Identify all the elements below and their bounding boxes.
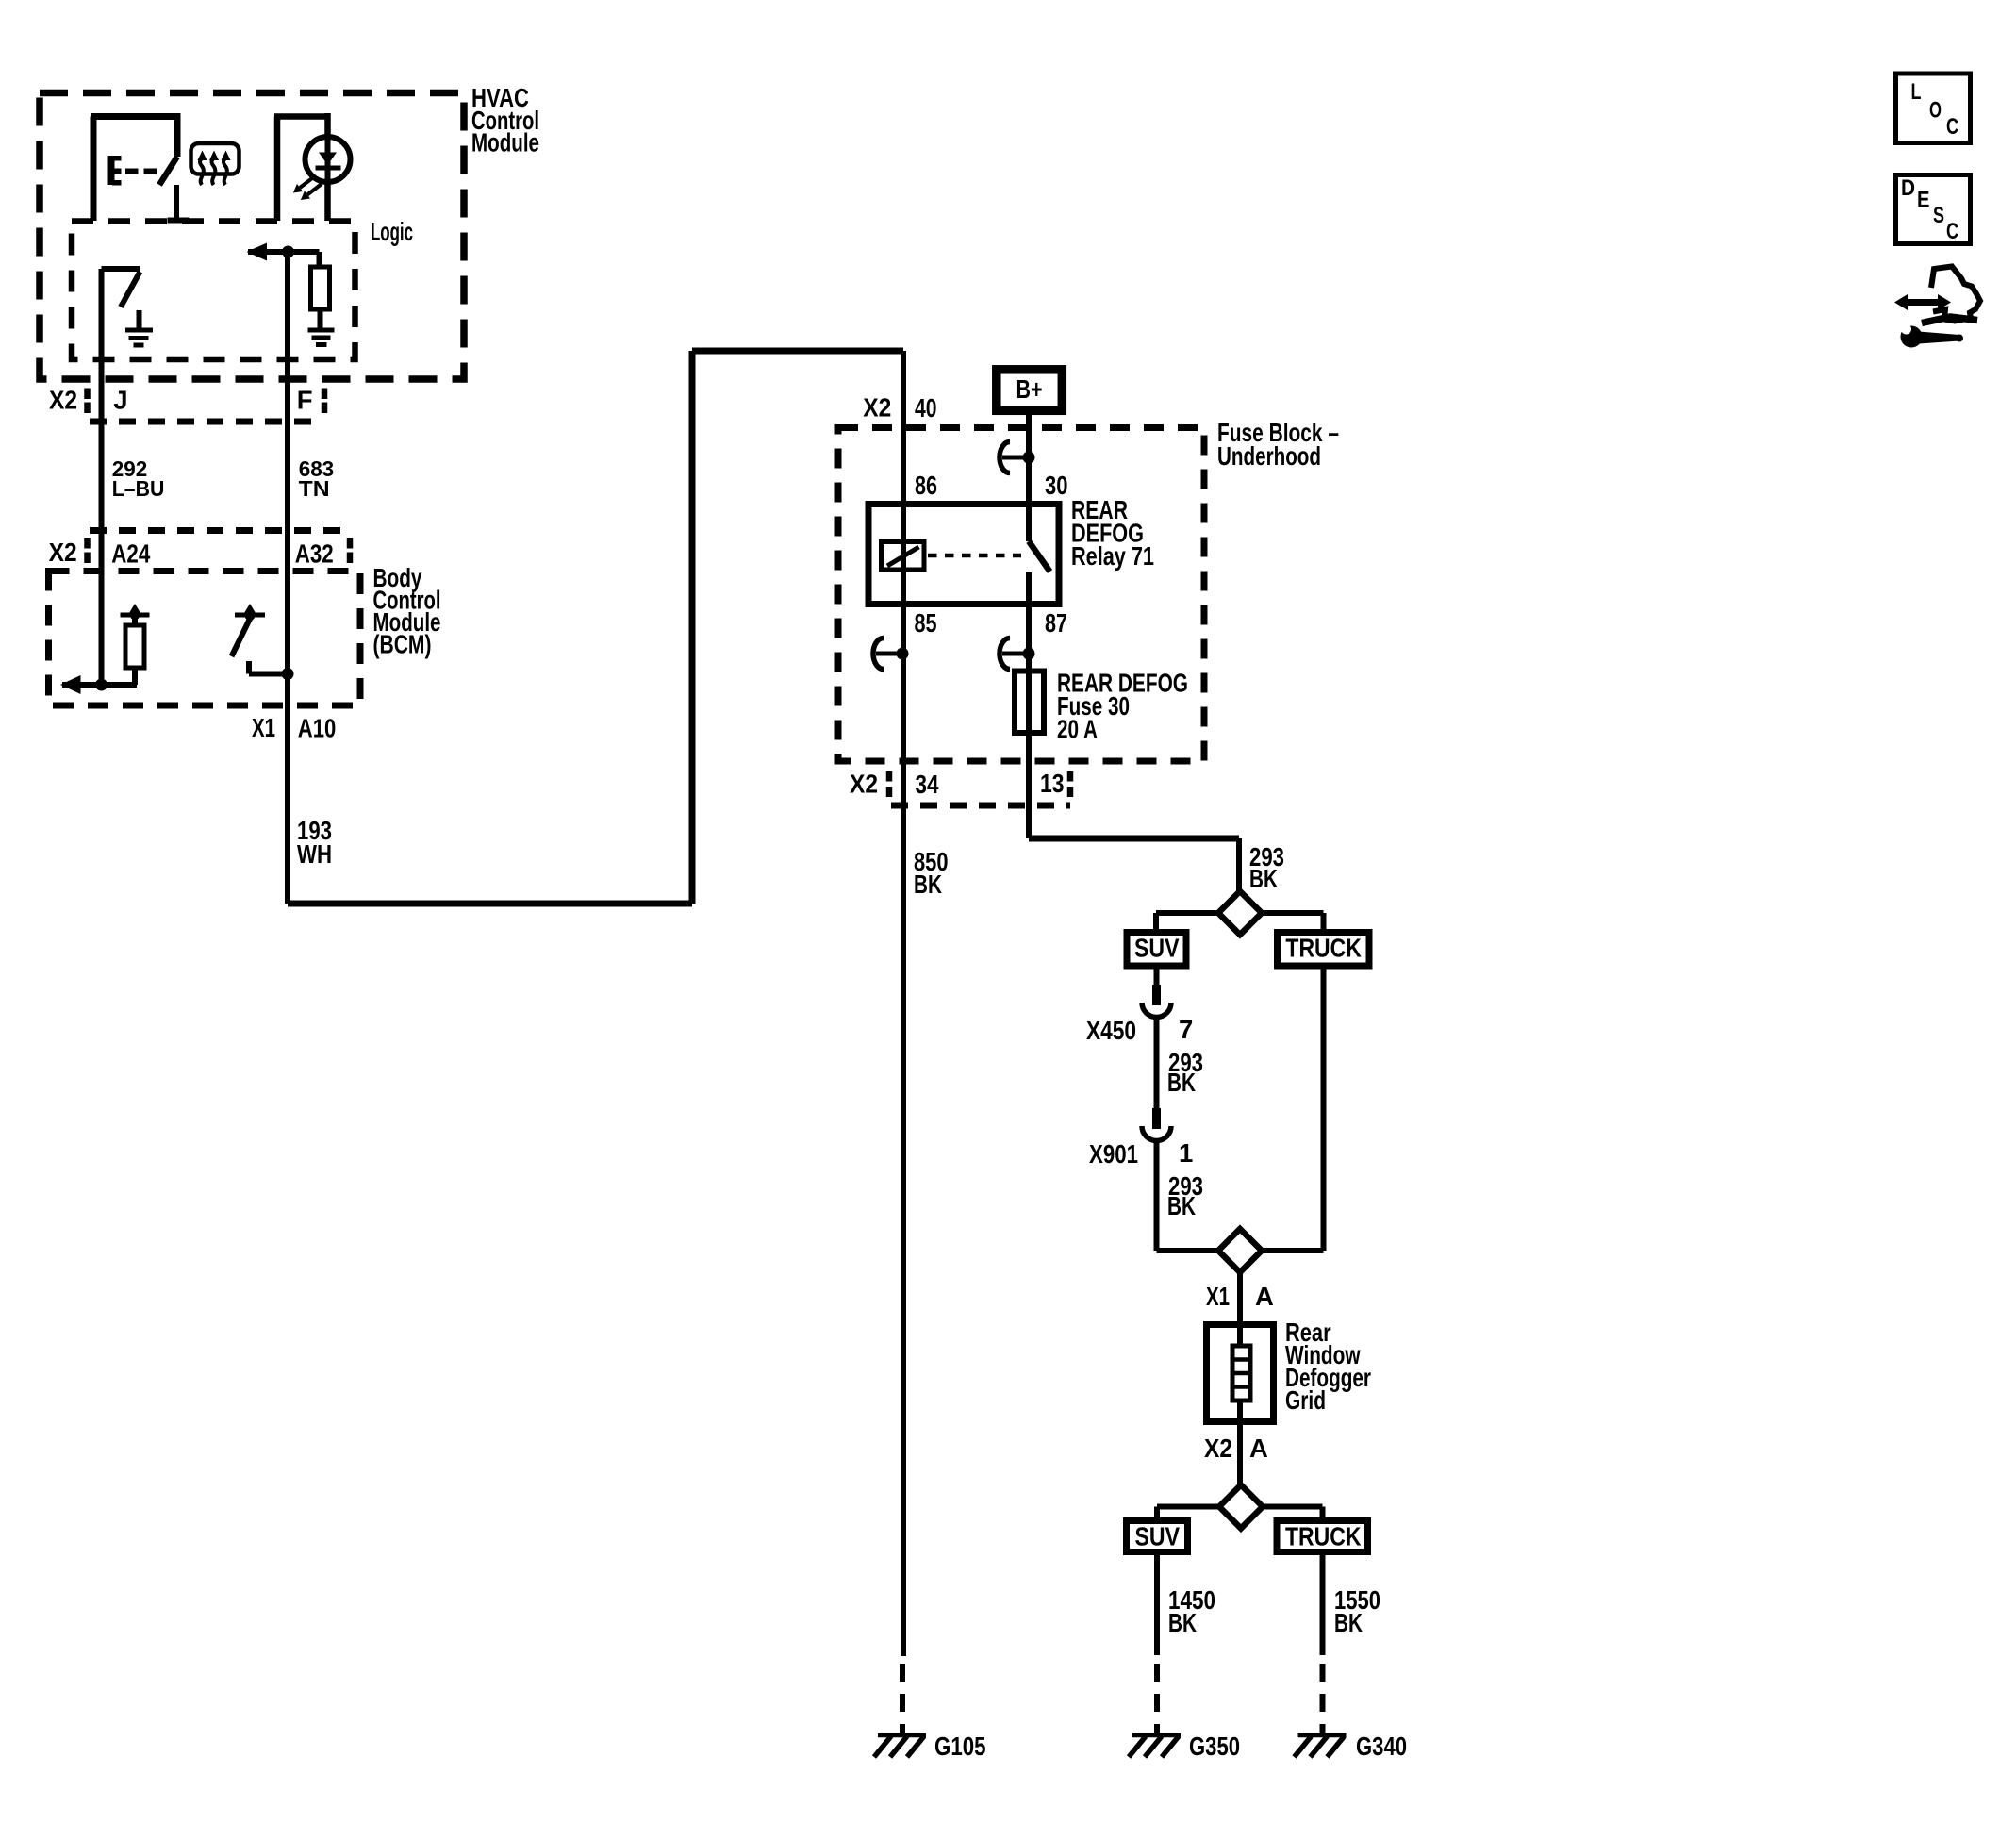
- svg-text:D: D: [1901, 175, 1915, 201]
- svg-text:WH: WH: [297, 839, 332, 869]
- svg-text:40: 40: [915, 393, 937, 423]
- svg-text:SUV: SUV: [1134, 934, 1180, 963]
- svg-text:Grid: Grid: [1285, 1385, 1326, 1415]
- svg-text:A24: A24: [111, 539, 151, 569]
- svg-text:J: J: [113, 386, 127, 415]
- svg-text:C: C: [1946, 219, 1958, 244]
- svg-text:TN: TN: [299, 476, 330, 501]
- svg-text:Underhood: Underhood: [1217, 441, 1321, 471]
- svg-text:X2: X2: [49, 538, 77, 567]
- svg-text:TRUCK: TRUCK: [1285, 1521, 1362, 1550]
- svg-text:F: F: [297, 386, 313, 415]
- svg-text:X901: X901: [1089, 1139, 1138, 1169]
- svg-text:SUV: SUV: [1135, 1521, 1181, 1550]
- svg-text:G105: G105: [934, 1732, 986, 1761]
- svg-text:BK: BK: [1168, 1608, 1197, 1637]
- svg-text:X2: X2: [49, 386, 77, 415]
- svg-text:A32: A32: [295, 539, 334, 569]
- svg-text:X1: X1: [252, 713, 275, 742]
- svg-text:BK: BK: [1334, 1608, 1363, 1637]
- svg-text:87: 87: [1045, 608, 1067, 638]
- svg-text:A: A: [1249, 1434, 1268, 1463]
- svg-text:A10: A10: [298, 713, 337, 742]
- svg-text:L: L: [1911, 79, 1922, 105]
- svg-text:BK: BK: [914, 870, 942, 899]
- svg-text:G350: G350: [1189, 1732, 1240, 1761]
- svg-text:X1: X1: [1206, 1282, 1230, 1311]
- svg-text:Module: Module: [471, 127, 539, 157]
- svg-text:7: 7: [1179, 1015, 1193, 1044]
- svg-text:E: E: [1917, 188, 1930, 213]
- svg-text:Relay 71: Relay 71: [1071, 541, 1154, 571]
- svg-text:1: 1: [1179, 1138, 1193, 1168]
- svg-text:X2: X2: [1204, 1434, 1232, 1463]
- svg-text:O: O: [1929, 98, 1942, 124]
- svg-text:X2: X2: [850, 770, 878, 799]
- svg-text:86: 86: [915, 471, 937, 500]
- svg-text:X450: X450: [1086, 1016, 1136, 1045]
- svg-text:A: A: [1255, 1282, 1274, 1311]
- svg-text:C: C: [1946, 114, 1958, 140]
- svg-text:BK: BK: [1167, 1191, 1196, 1220]
- svg-text:BK: BK: [1167, 1068, 1196, 1097]
- svg-text:13: 13: [1040, 769, 1065, 798]
- svg-text:L–BU: L–BU: [112, 476, 165, 501]
- svg-text:X2: X2: [863, 393, 891, 423]
- svg-text:Logic: Logic: [371, 217, 413, 246]
- svg-text:20 A: 20 A: [1057, 714, 1098, 743]
- svg-text:BK: BK: [1249, 864, 1278, 893]
- svg-text:30: 30: [1045, 471, 1068, 500]
- svg-text:85: 85: [915, 608, 937, 638]
- svg-text:34: 34: [916, 770, 940, 799]
- svg-text:B+: B+: [1016, 374, 1043, 404]
- svg-text:TRUCK: TRUCK: [1285, 934, 1362, 963]
- svg-text:(BCM): (BCM): [373, 629, 432, 658]
- svg-text:S: S: [1933, 203, 1944, 228]
- svg-text:G340: G340: [1356, 1732, 1407, 1761]
